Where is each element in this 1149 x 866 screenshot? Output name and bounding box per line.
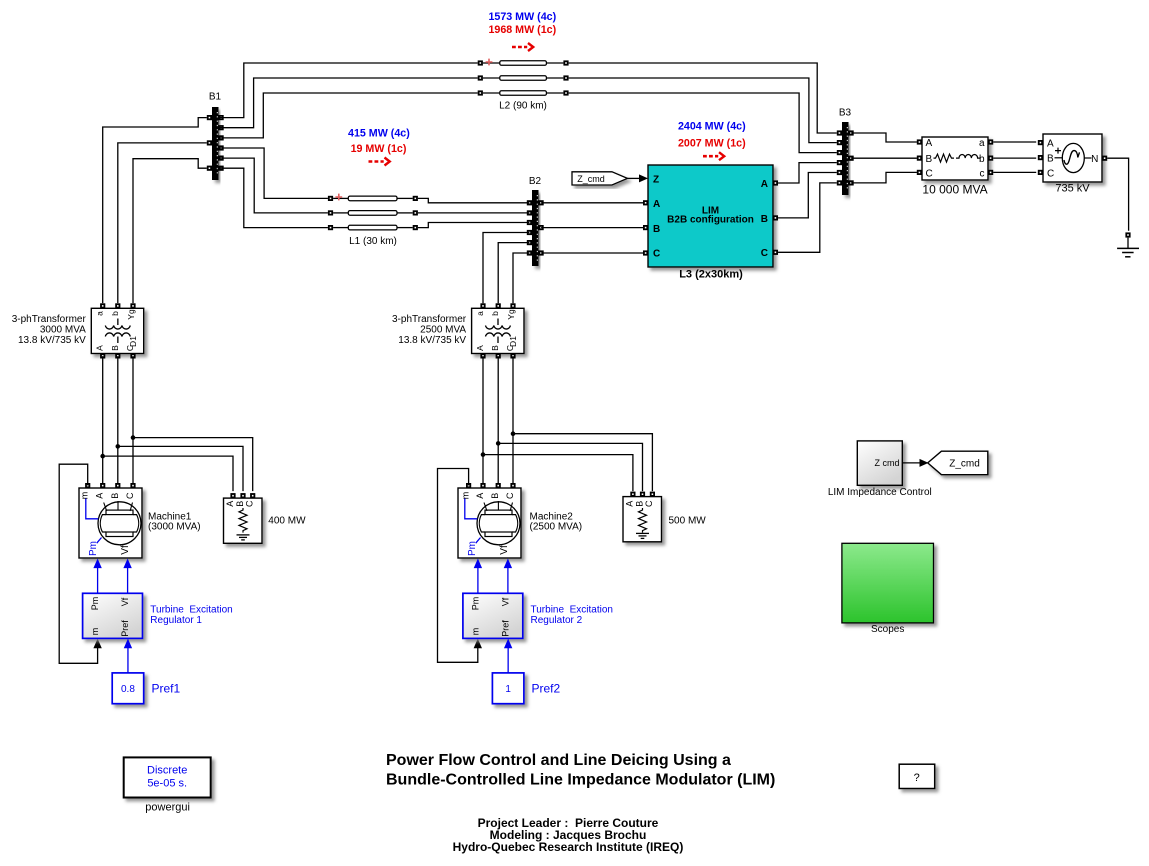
wire LIM B out to B3 port5 [776,173,837,218]
svg-text:Pm: Pm [90,597,100,611]
constant Pref2 [492,639,560,704]
svg-text:415 MW (4c): 415 MW (4c) [348,128,410,140]
transmission line block L2 (90 km) [478,59,569,112]
svg-text:Power Flow Control and Line De: Power Flow Control and Line Deicing Usin… [386,752,731,769]
svg-text:C: C [505,492,515,499]
svg-text:a: a [979,138,985,149]
svg-text:Z cmd: Z cmd [874,458,899,468]
svg-text:m: m [80,492,90,500]
svg-text:Yg: Yg [506,309,516,320]
wire T1 B to Machine1 B [117,356,119,485]
svg-text:A: A [95,493,105,499]
help block ? [899,764,935,788]
svg-text:500 MW: 500 MW [669,516,707,527]
svg-text:A: A [761,179,768,190]
svg-text:Z_cmd: Z_cmd [577,174,605,184]
bus B2 [527,176,544,266]
wire B3 to source impedance B [851,157,917,159]
ground [1117,232,1139,256]
svg-text:Pm: Pm [467,541,478,556]
svg-text:Scopes: Scopes [871,624,904,635]
wire B1 left1 to T1 a [103,118,207,304]
svg-text:Z: Z [653,174,659,185]
synchronous machine Machine2 [458,483,582,558]
svg-text:C: C [926,168,933,179]
svg-text:C: C [125,492,135,499]
svg-text:Pref: Pref [500,620,510,637]
junction node phase C [131,435,136,440]
svg-text:L3 (2x30km): L3 (2x30km) [679,269,743,281]
constant Pref1 [112,639,180,704]
wire Machine2 m output to Regulator2 m input [438,469,478,663]
three-phase source 735 kV [1038,134,1107,194]
svg-text:b: b [979,154,985,165]
transformer T2 2500 MVA [392,303,524,358]
wire L2 phase A to B3 port1 [569,63,837,133]
source impedance block 10 000 MVA [917,137,993,196]
svg-text:Pm: Pm [470,597,480,611]
wire Z_cmd tag to LIM Z input [628,177,641,179]
wire branch to load phase A [483,455,633,492]
svg-text:2500 MVA: 2500 MVA [420,325,466,336]
svg-text:C: C [1047,168,1054,179]
svg-text:a: a [475,311,485,316]
svg-text:A: A [95,345,105,351]
svg-text:Yg: Yg [126,309,136,320]
wire B1 port4 to L1 phase A [218,148,328,198]
svg-text:c: c [980,168,985,179]
svg-text:C: C [761,248,768,259]
svg-text:Hydro-Quebec Research Institut: Hydro-Quebec Research Institute (IREQ) [453,840,684,854]
three-phase load 400 MW [224,493,307,543]
svg-text:Regulator 1: Regulator 1 [150,615,202,626]
wire source N to ground [1107,158,1128,231]
svg-text:B: B [490,345,500,351]
svg-text:Pref1: Pref1 [152,682,181,696]
svg-text:Discrete: Discrete [147,765,187,777]
wire T2 C to Machine2 C [512,356,514,485]
svg-text:B: B [110,345,120,351]
svg-text:m: m [470,628,480,636]
synchronous machine Machine1 [79,483,201,558]
wire T2 A to Machine2 A [482,356,484,485]
svg-text:A: A [225,501,235,507]
wire impedance a to source A [993,141,1036,143]
svg-text:400 MW: 400 MW [268,516,306,527]
svg-text:B: B [110,493,120,499]
svg-text:Vf: Vf [120,597,130,606]
svg-text:A: A [475,493,485,499]
bus B3 [837,108,854,196]
junction node phase B [116,444,121,449]
sine wave icon [1064,151,1080,165]
wire Vf to machine [507,568,509,594]
svg-text:C: C [653,249,660,260]
wire B1 port2 to L2 phase B [218,78,478,128]
svg-text:a: a [95,311,105,316]
svg-text:Vf: Vf [500,597,510,606]
wire B1 left3 to T1 c [133,159,207,303]
from tag Z_cmd (LIM input) [572,172,628,185]
wire B1 left2 to T1 b [118,143,207,303]
svg-text:3-phTransformer: 3-phTransformer [12,314,87,325]
wire B2 to LIM B [541,227,645,229]
wire branch to load phase B [118,446,243,491]
wire T2 c to B2 port6 [513,253,529,303]
transmission line block L1 (30 km) [328,194,418,247]
wire L1 phase A to B2 port1 [418,198,530,202]
wire LIM A out to B3 port4 [776,163,837,183]
svg-text:B1: B1 [209,92,222,103]
wire T2 B to Machine2 B [497,356,499,485]
wire LIM C out to B3 port6 [776,183,837,252]
svg-text:m: m [90,628,100,636]
svg-text:N: N [1091,154,1098,165]
svg-text:Bundle-Controlled Line Impedan: Bundle-Controlled Line Impedance Modulat… [386,771,775,788]
svg-text:L1 (30 km): L1 (30 km) [349,236,397,247]
svg-text:5e-05 s.: 5e-05 s. [147,778,187,790]
svg-text:powergui: powergui [145,802,190,814]
resistor (series RL) [934,154,955,162]
svg-text:C: C [245,500,255,507]
svg-text:Machine2: Machine2 [530,511,574,522]
wire L1 phase C to B2 port3 [418,223,530,228]
junction node phase A [100,454,105,459]
svg-text:1968 MW (1c): 1968 MW (1c) [488,24,556,36]
wire B3 to source impedance C [851,172,917,183]
svg-text:735 kV: 735 kV [1055,182,1090,194]
svg-text:19 MW (1c): 19 MW (1c) [351,143,407,155]
svg-text:D1: D1 [508,336,518,347]
svg-text:0.8: 0.8 [121,684,135,695]
wire T1 A to Machine1 A [102,356,104,485]
wire Z cmd to goto tag [902,462,920,464]
wire B2 to LIM A [541,202,645,204]
wire impedance b to source B [993,157,1036,159]
wire branch to load phase C [133,438,253,492]
wire T2 b to B2 port5 [498,243,529,304]
junction node phase C [511,431,516,436]
svg-text:Pref: Pref [120,620,130,637]
svg-text:1: 1 [505,684,511,695]
svg-text:(3000 MVA): (3000 MVA) [148,522,201,533]
Turbine Excitation Regulator 2 [463,559,613,639]
Turbine Excitation Regulator 1 [83,559,233,639]
svg-text:A: A [653,199,660,210]
wire L2 phase B to B3 port2 [569,78,837,143]
svg-text:(2500 MVA): (2500 MVA) [530,522,583,533]
powergui block [124,757,211,813]
svg-text:B2: B2 [529,176,542,187]
svg-text:Vf: Vf [120,545,131,555]
wire L2 phase C to B3 port3 [569,93,837,153]
svg-text:B: B [761,214,768,225]
LIM Impedance Control block [828,441,932,498]
svg-text:1573 MW (4c): 1573 MW (4c) [488,11,556,23]
svg-text:D1: D1 [128,336,138,347]
wire branch to load phase B [498,443,642,491]
wire B1 port5 to L1 phase B [218,158,328,213]
wire branch to load phase A [103,456,233,491]
load ground [636,532,649,534]
wire T2 a to B2 port4 [483,233,529,304]
svg-text:13.8 kV/735 kV: 13.8 kV/735 kV [18,335,86,346]
junction node phase A [481,452,486,457]
wire Pm to machine [97,568,99,594]
load resistor [239,508,247,533]
svg-text:3-phTransformer: 3-phTransformer [392,314,467,325]
svg-text:?: ? [914,772,920,784]
svg-text:2404 MW (4c): 2404 MW (4c) [678,121,746,133]
svg-text:Machine1: Machine1 [148,511,192,522]
svg-text:B: B [490,493,500,499]
svg-text:Regulator 2: Regulator 2 [531,615,583,626]
svg-text:B: B [634,501,644,507]
svg-text:B: B [1047,154,1054,165]
three-phase load 500 MW [623,492,706,542]
svg-text:B: B [653,224,660,235]
svg-text:b: b [490,311,500,316]
wire Pref2 to regulator [507,648,509,673]
wire T1 C to Machine1 C [132,356,134,485]
wire impedance c to source C [993,171,1036,173]
svg-text:A: A [1047,139,1054,150]
wire Pref1 to regulator [127,648,129,673]
wire Vf to machine [127,568,129,594]
svg-text:A: A [475,345,485,351]
wire Machine1 m output to Regulator1 m input [59,464,97,663]
wire branch to load phase C [513,434,652,491]
wire L1 phase B to B2 port2 [418,212,530,214]
wire Pm to machine [477,568,479,594]
svg-text:Z_cmd: Z_cmd [949,459,980,470]
svg-text:3000 MVA: 3000 MVA [40,325,86,336]
wire B2 to LIM C [541,252,645,254]
LIM B2B configuration block [643,165,778,281]
inductor (series RL) [956,155,981,159]
svg-text:A: A [926,138,933,149]
svg-text:Vf: Vf [499,545,510,555]
wire B1 port3 to L2 phase C [218,93,478,138]
wire B1 port1 to L2 phase A [218,63,478,118]
svg-text:2007 MW (1c): 2007 MW (1c) [678,138,746,150]
svg-text:Pref2: Pref2 [532,682,561,696]
svg-text:LIM Impedance Control: LIM Impedance Control [828,487,932,498]
goto tag Z_cmd [928,451,988,475]
bus B1 [207,92,224,181]
svg-text:B: B [235,501,245,507]
svg-text:Pm: Pm [88,541,99,556]
wire B1 port6 to L1 phase C [218,168,328,227]
svg-text:13.8 kV/735 kV: 13.8 kV/735 kV [398,335,466,346]
svg-text:C: C [644,500,654,507]
load resistor [639,508,647,533]
svg-text:10 000 MVA: 10 000 MVA [922,182,987,196]
load ground [237,534,250,536]
svg-text:B3: B3 [839,108,852,119]
junction node phase B [496,441,501,446]
svg-text:A: A [625,501,635,507]
Scopes subsystem block [842,543,934,635]
svg-text:B2B configuration: B2B configuration [667,215,754,226]
svg-text:L2 (90 km): L2 (90 km) [499,101,547,112]
wire B3 to source impedance A [851,133,917,142]
svg-text:m: m [461,492,471,500]
transformer T1 3000 MVA [12,303,144,358]
svg-text:B: B [926,154,933,165]
svg-text:b: b [110,311,120,316]
